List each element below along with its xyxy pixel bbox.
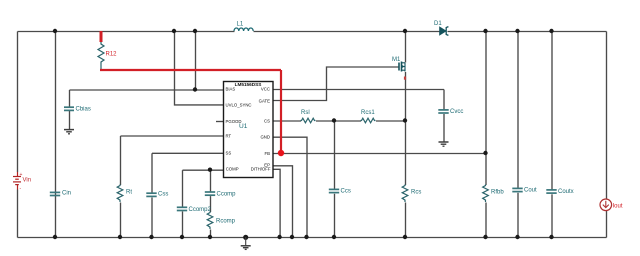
capacitor Css bbox=[146, 192, 168, 198]
inductor L1 bbox=[234, 22, 253, 32]
svg-text:M1: M1 bbox=[392, 57, 401, 63]
current source Iout bbox=[600, 199, 623, 211]
resistor Rcs1 bbox=[361, 110, 376, 123]
svg-text:UVLO_SYNC: UVLO_SYNC bbox=[226, 103, 252, 108]
svg-text:D1: D1 bbox=[434, 21, 442, 27]
node Coutx top bbox=[549, 29, 553, 33]
wire Cin branch bbox=[55, 32, 57, 238]
resistor Rcomp bbox=[207, 212, 235, 230]
capacitor Ccomp bbox=[205, 192, 236, 198]
node bottom Cout bbox=[515, 235, 519, 239]
ground main (bottom rail) bbox=[241, 237, 251, 249]
wire top rail Vout segment bbox=[448, 31, 607, 33]
wire Cvcc branch bbox=[443, 90, 445, 111]
wire left bus (Vin branch) bbox=[17, 32, 19, 173]
wire Cbias branch bbox=[69, 90, 71, 108]
svg-text:DITH/OFF: DITH/OFF bbox=[251, 167, 271, 172]
wire Cvcc to ground bbox=[443, 114, 445, 142]
svg-text:L1: L1 bbox=[237, 22, 244, 28]
wire M1 drain from top rail bbox=[405, 32, 407, 63]
resistor Rsl bbox=[301, 110, 316, 123]
svg-text:Rt: Rt bbox=[126, 190, 132, 196]
node bottom Ccomp2 bbox=[180, 235, 184, 239]
wire Rfbb vertical from top rail bbox=[485, 32, 487, 186]
wire UVLO vertical from top rail bbox=[175, 32, 225, 105]
svg-text:Coutx: Coutx bbox=[558, 189, 574, 195]
svg-text:LM5156DSS: LM5156DSS bbox=[235, 82, 262, 87]
node junction dots top rail bbox=[53, 29, 554, 239]
svg-text:Ccomp: Ccomp bbox=[217, 192, 237, 198]
capacitor Cbias bbox=[64, 107, 91, 113]
wire RT row bbox=[121, 135, 225, 137]
ground under Cvcc bbox=[439, 142, 449, 146]
node bottom Ccs bbox=[332, 235, 336, 239]
svg-text:GATE: GATE bbox=[259, 99, 271, 104]
capacitor Cout bbox=[512, 188, 537, 194]
wire Ccs branch upper bbox=[334, 121, 336, 190]
node bottom Rfbb bbox=[483, 235, 487, 239]
svg-text:Cvcc: Cvcc bbox=[450, 109, 463, 115]
node UVLO top bbox=[172, 29, 176, 33]
wire top rail switch-node segment bbox=[254, 31, 441, 33]
wire Rcs lower bbox=[405, 203, 407, 238]
wire Rcs1 to switch node bbox=[376, 120, 406, 122]
wire Ccomp branch upper bbox=[210, 170, 212, 192]
node bottom Rcomp bbox=[208, 235, 212, 239]
pin stub PGOOD bbox=[216, 121, 224, 123]
ground under Cbias bbox=[64, 130, 74, 134]
wire EP path bbox=[274, 166, 293, 238]
capacitor Ccomp2 bbox=[177, 207, 212, 213]
wire VCC row bbox=[274, 89, 445, 91]
node BIAS top bbox=[193, 29, 197, 33]
transistor M1 (NMOS) bbox=[392, 57, 406, 80]
node Rfbb top bbox=[483, 29, 487, 33]
current probe mark on M1 source bbox=[404, 77, 406, 80]
svg-text:PGOOD: PGOOD bbox=[226, 119, 242, 124]
wire Cout branch lower bbox=[517, 193, 519, 238]
wire CS row left bbox=[274, 120, 302, 122]
wire red feedback vertical bbox=[280, 70, 282, 153]
node bottom Css bbox=[149, 235, 153, 239]
svg-text:Rsl: Rsl bbox=[301, 110, 310, 116]
wire Ccs branch lower bbox=[334, 194, 336, 238]
wire red feedback horizontal bbox=[100, 69, 281, 71]
resistor Rfbb bbox=[483, 185, 505, 203]
wire BIAS row bbox=[70, 89, 225, 91]
svg-text:Rcs1: Rcs1 bbox=[361, 110, 375, 116]
capacitor Coutx bbox=[546, 189, 573, 195]
wire GATE path bbox=[274, 67, 400, 101]
svg-text:SS: SS bbox=[226, 151, 232, 156]
node BIAS junction bbox=[193, 87, 197, 91]
svg-text:CS: CS bbox=[264, 118, 270, 123]
node switch top bbox=[403, 29, 407, 33]
wire Rfbb lower bbox=[485, 203, 487, 238]
wire Rcomp lower bbox=[210, 230, 212, 238]
svg-text:+: + bbox=[20, 172, 23, 178]
svg-text:Cin: Cin bbox=[62, 191, 71, 197]
diode D1 (schottky) bbox=[434, 21, 448, 36]
wire Coutx branch upper bbox=[551, 32, 553, 191]
svg-text:GND: GND bbox=[260, 135, 270, 140]
svg-text:R12: R12 bbox=[106, 52, 118, 58]
node COMP junction bbox=[208, 168, 212, 172]
resistor Rcs bbox=[402, 185, 421, 203]
svg-text:Cbias: Cbias bbox=[76, 107, 91, 113]
capacitor Cvcc bbox=[438, 109, 463, 115]
wire Coutx branch lower bbox=[551, 194, 553, 237]
svg-text:BIAS: BIAS bbox=[226, 86, 236, 91]
wire Ccomp to Rcomp bbox=[210, 196, 212, 212]
wire SS row bbox=[152, 152, 224, 154]
node bottom DITH/OFF bbox=[277, 235, 281, 239]
resistor Rt bbox=[117, 185, 132, 203]
capacitor Ccs bbox=[329, 189, 351, 195]
svg-text:Rfbb: Rfbb bbox=[491, 190, 504, 196]
svg-text:COMP: COMP bbox=[226, 167, 239, 172]
svg-text:RT: RT bbox=[226, 133, 232, 138]
node FB red junction bbox=[278, 150, 284, 156]
node bottom Coutx bbox=[549, 235, 553, 239]
wire Css branch lower bbox=[151, 198, 153, 238]
node bottom Rt bbox=[118, 235, 122, 239]
battery Vin bbox=[13, 172, 31, 192]
wire CS node between Rsl and Rcs1 bbox=[316, 120, 361, 122]
node bottom Rcs bbox=[403, 235, 407, 239]
IC U1 (LM5156DSS) body bbox=[224, 82, 274, 178]
wire Iout branch lower bbox=[606, 211, 608, 238]
wire bottom ground rail bbox=[18, 237, 607, 239]
wire Cout branch upper bbox=[517, 32, 519, 189]
wire BIAS vertical from top rail bbox=[195, 32, 197, 91]
wire GND pin path bbox=[274, 137, 308, 237]
node bottom EP bbox=[290, 235, 294, 239]
node Cout top bbox=[515, 29, 519, 33]
svg-text:Vin: Vin bbox=[23, 178, 32, 184]
svg-text:VCC: VCC bbox=[261, 86, 270, 91]
node FB-Rfbb junction bbox=[483, 151, 487, 155]
svg-text:Ccomp2: Ccomp2 bbox=[189, 207, 212, 213]
svg-text:Rcomp: Rcomp bbox=[216, 219, 236, 225]
wire Rt branch lower bbox=[120, 203, 122, 238]
node bottom GND pin bbox=[304, 235, 308, 239]
wire Rt branch upper bbox=[120, 136, 122, 185]
svg-text:Rcs: Rcs bbox=[411, 190, 421, 196]
wire M1 source down bbox=[405, 72, 407, 185]
svg-text:Css: Css bbox=[158, 192, 168, 198]
wire top rail Vin segment bbox=[18, 31, 235, 33]
node CS filter junction bbox=[332, 118, 336, 122]
svg-text:Ccs: Ccs bbox=[341, 189, 351, 195]
node bottom Cin bbox=[53, 235, 57, 239]
wire DITH/OFF path bbox=[274, 169, 281, 237]
svg-text:Iout: Iout bbox=[613, 204, 623, 210]
wire Ccomp2 branch upper bbox=[182, 170, 184, 207]
resistor R12 (red lead) bbox=[98, 31, 117, 70]
node CS switch junction bbox=[403, 118, 407, 122]
wire Css branch upper bbox=[151, 153, 153, 193]
wire Iout branch upper bbox=[606, 32, 608, 200]
node ground junction on bottom rail bbox=[243, 235, 248, 240]
svg-text:Cout: Cout bbox=[524, 188, 537, 194]
wire Ccomp2 branch lower bbox=[182, 212, 184, 238]
wire COMP row bbox=[183, 169, 225, 171]
wire Cbias to ground bbox=[69, 111, 71, 130]
svg-text:FB: FB bbox=[265, 151, 271, 156]
node Cin top bbox=[53, 29, 57, 33]
capacitor Cin bbox=[50, 191, 71, 197]
wire FB row bbox=[274, 153, 487, 155]
wire left bus lower bbox=[17, 190, 19, 238]
